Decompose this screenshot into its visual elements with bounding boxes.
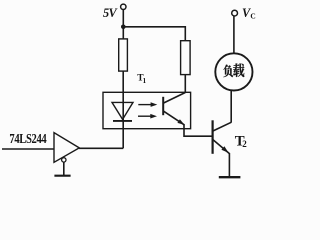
terminal Vc [232, 10, 238, 16]
phototransistor base bar [162, 97, 164, 115]
wire phototransistor emitter to T2 base [184, 124, 212, 136]
transistor T2 collector [213, 122, 231, 131]
label Vc [242, 6, 256, 21]
light arrow 1 [138, 104, 151, 106]
label T2 [235, 133, 248, 149]
terminal 5V supply [121, 4, 126, 9]
buffer enable bubble [62, 158, 66, 162]
optocoupler T1 box [103, 92, 191, 128]
wire R1 bottom through LED to buffer output node [122, 71, 124, 148]
svg-text:C: C [250, 12, 255, 21]
wire bubble to ground [63, 162, 65, 175]
wire 5V terminal to R1 top [122, 10, 124, 39]
wire T2 emitter to ground [228, 153, 230, 177]
light arrow 2 [138, 115, 151, 117]
svg-text:1: 1 [143, 77, 147, 85]
phototransistor emitter [164, 111, 184, 125]
buffer U2 triangle 74LS244 [54, 133, 79, 163]
wire 5V rail to R2 [123, 27, 185, 41]
svg-text:2: 2 [242, 139, 247, 149]
wire R2 bottom to optocoupler box [184, 75, 186, 93]
resistor R2 [181, 41, 191, 75]
ground under buffer [54, 175, 70, 177]
transistor T2 emitter [213, 140, 229, 154]
resistor R1 [119, 39, 128, 71]
transistor T2 base bar [212, 120, 214, 154]
ground under T2 [219, 176, 241, 178]
svg-text:74LS244: 74LS244 [9, 131, 46, 147]
wire load top to Vc terminal [233, 16, 235, 53]
load label 载 [233, 63, 244, 76]
label T1 [137, 74, 146, 85]
junction dot node 5V rail [121, 25, 126, 30]
phototransistor collector [164, 93, 186, 104]
svg-text:5V: 5V [103, 6, 119, 20]
load M1 circle [215, 53, 252, 90]
wire T2 collector to load [230, 90, 232, 122]
load label 负 [223, 65, 232, 78]
wire input to buffer [2, 148, 54, 150]
LED cathode bar [113, 120, 132, 122]
LED D1 of optocoupler [112, 102, 133, 119]
wire buffer output to LED cathode node [79, 147, 123, 149]
